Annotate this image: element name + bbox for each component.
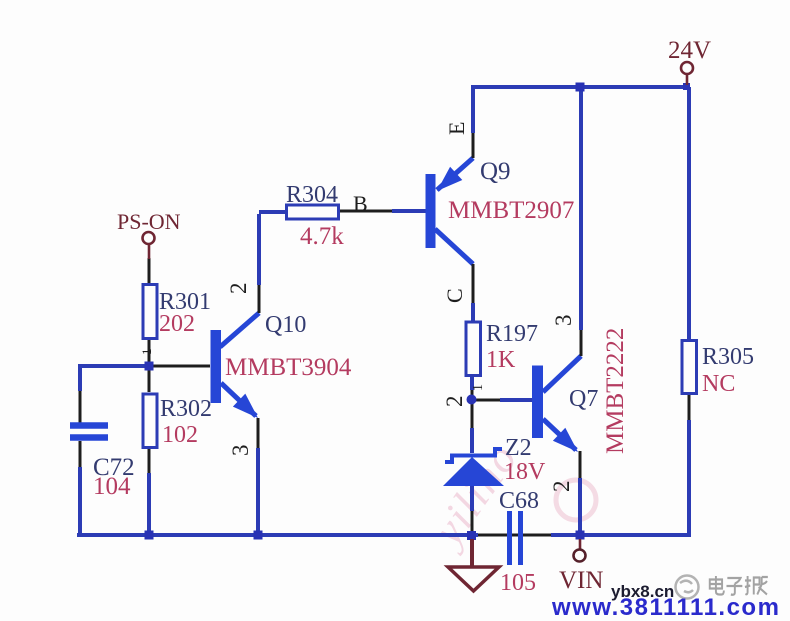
- svg-text:1: 1: [139, 349, 154, 356]
- svg-text:B: B: [353, 191, 368, 216]
- svg-text:2: 2: [549, 481, 574, 493]
- svg-text:24V: 24V: [668, 37, 711, 64]
- svg-text:VIN: VIN: [559, 567, 603, 594]
- svg-text:1K: 1K: [486, 347, 516, 373]
- svg-text:E: E: [444, 122, 469, 135]
- svg-text:2: 2: [442, 396, 467, 408]
- svg-text:102: 102: [162, 422, 198, 448]
- svg-text:Z2: Z2: [505, 435, 532, 461]
- svg-text:MMBT3904: MMBT3904: [225, 354, 352, 381]
- svg-text:18V: 18V: [504, 459, 546, 485]
- svg-text:C: C: [442, 288, 467, 303]
- svg-text:105: 105: [500, 570, 536, 596]
- svg-text:1: 1: [471, 384, 486, 391]
- svg-text:2: 2: [226, 283, 251, 295]
- svg-text:4.7k: 4.7k: [300, 223, 344, 250]
- svg-text:www.3811111.com: www.3811111.com: [551, 594, 780, 621]
- svg-text:C68: C68: [499, 488, 539, 514]
- svg-text:MMBT2222: MMBT2222: [602, 328, 629, 454]
- svg-text:MMBT2907: MMBT2907: [448, 197, 574, 224]
- svg-text:Q10: Q10: [265, 312, 306, 338]
- svg-text:NC: NC: [702, 371, 735, 397]
- svg-text:3: 3: [228, 445, 253, 457]
- svg-text:R197: R197: [486, 321, 538, 347]
- svg-text:202: 202: [159, 311, 195, 337]
- svg-text:R302: R302: [160, 396, 212, 422]
- svg-text:R305: R305: [702, 344, 754, 370]
- svg-text:R304: R304: [286, 182, 338, 208]
- svg-text:Q9: Q9: [480, 158, 511, 185]
- svg-text:Q7: Q7: [569, 386, 598, 412]
- svg-text:104: 104: [93, 473, 131, 500]
- svg-text:PS-ON: PS-ON: [117, 209, 181, 234]
- svg-text:3: 3: [551, 315, 576, 327]
